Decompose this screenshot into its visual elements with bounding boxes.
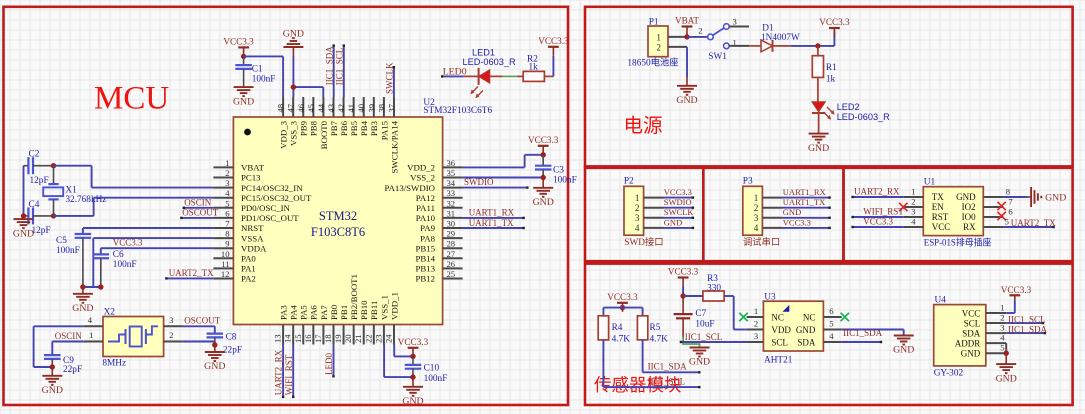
svg-text:43: 43 xyxy=(326,104,336,113)
pin 28 PB15 (right) xyxy=(415,239,462,254)
svg-text:OSCOUT: OSCOUT xyxy=(184,316,221,326)
svg-text:SWD接口: SWD接口 xyxy=(624,236,663,248)
capacitor C9 xyxy=(44,342,82,376)
pin 7 NRST (left) xyxy=(213,219,264,234)
svg-text:GY-302: GY-302 xyxy=(934,369,964,379)
svg-text:11: 11 xyxy=(221,259,229,269)
svg-text:44: 44 xyxy=(316,103,326,112)
wire VSS_1 to ground xyxy=(384,345,413,378)
svg-text:18: 18 xyxy=(323,334,333,343)
svg-text:VCC3.3: VCC3.3 xyxy=(783,217,811,227)
svg-text:21: 21 xyxy=(353,334,363,343)
svg-text:4: 4 xyxy=(88,315,93,325)
svg-text:UART1_TX: UART1_TX xyxy=(469,218,514,228)
pin 18 PB0 (bottom) xyxy=(323,304,339,344)
svg-text:OSCIN: OSCIN xyxy=(184,197,212,207)
junction X1 bottom xyxy=(51,213,56,218)
svg-text:LED0: LED0 xyxy=(324,353,334,375)
power VCC3.3 in power section xyxy=(819,17,850,37)
power VBAT symbol xyxy=(675,16,699,36)
svg-text:2: 2 xyxy=(169,330,173,340)
wire junction to R3 xyxy=(683,295,703,297)
wire X1 bottom to pin 4 xyxy=(54,198,214,216)
svg-text:BOOT0: BOOT0 xyxy=(319,120,329,149)
net label SWCLK (pin 37 wire) xyxy=(385,62,396,97)
svg-text:IIC1_SDA: IIC1_SDA xyxy=(843,328,883,338)
wire VSS_3 / BOOT0 ground tie xyxy=(293,56,323,97)
connector P3 body xyxy=(743,177,780,248)
svg-text:PA0: PA0 xyxy=(241,254,256,264)
pin 10 PA0 (left) xyxy=(213,249,256,264)
svg-text:R4: R4 xyxy=(612,323,623,333)
svg-text:PA9: PA9 xyxy=(420,223,435,233)
ground below LED2 xyxy=(808,134,829,154)
capacitor C8 xyxy=(207,326,242,355)
svg-text:R1: R1 xyxy=(826,63,837,73)
pin 24 VDD_1 (bottom) xyxy=(383,292,399,344)
resistor R3 xyxy=(703,274,724,301)
svg-text:VCC3.3: VCC3.3 xyxy=(863,216,893,226)
pin 4 PC15/OSC32_OUT (left) xyxy=(213,188,312,203)
sensor U3 AHT21 body xyxy=(763,293,823,366)
svg-text:X2: X2 xyxy=(104,307,116,317)
pin 2 of P2 with net SWDIO xyxy=(644,197,695,209)
svg-text:VDD_1: VDD_1 xyxy=(389,292,399,320)
svg-text:1: 1 xyxy=(225,158,229,168)
svg-text:PB1: PB1 xyxy=(339,305,349,320)
svg-text:3: 3 xyxy=(225,178,229,188)
pin 6 of U3 (no connect) xyxy=(823,306,849,321)
svg-text:1: 1 xyxy=(911,186,915,196)
junction C10 bottom xyxy=(410,374,415,379)
svg-text:SWCLK/PA14: SWCLK/PA14 xyxy=(389,120,399,173)
svg-text:10: 10 xyxy=(221,249,230,259)
svg-text:NC: NC xyxy=(803,312,816,322)
svg-text:C5: C5 xyxy=(56,236,67,246)
svg-text:PD1/OSC_OUT: PD1/OSC_OUT xyxy=(241,213,299,223)
svg-text:25: 25 xyxy=(447,269,456,279)
pin 5 PD0/OSC_IN (left) xyxy=(213,198,290,213)
pin 4 of P3 with net VCC3.3 xyxy=(762,217,830,229)
junction R1 top xyxy=(815,43,820,48)
svg-text:PB5: PB5 xyxy=(349,120,359,136)
svg-text:PA1: PA1 xyxy=(241,264,256,274)
svg-text:1N4007W: 1N4007W xyxy=(761,33,800,43)
svg-text:TX: TX xyxy=(932,192,944,202)
svg-text:100nF: 100nF xyxy=(553,176,577,186)
power VCC3.3 above R2 xyxy=(538,36,569,56)
svg-text:22pF: 22pF xyxy=(223,346,242,356)
junction C9 bottom xyxy=(50,364,55,369)
svg-text:45: 45 xyxy=(306,104,316,113)
svg-text:28: 28 xyxy=(447,239,456,249)
svg-text:3: 3 xyxy=(169,315,173,325)
pin 11 PA1 (left) xyxy=(213,259,255,274)
pin 4 of P2 with net GND xyxy=(644,217,695,229)
pin 32 PA11 (right) xyxy=(416,198,463,213)
svg-text:D1: D1 xyxy=(762,24,774,34)
svg-text:UART2_TX: UART2_TX xyxy=(1011,218,1056,228)
svg-text:VCC3.3: VCC3.3 xyxy=(538,36,569,46)
junction analog gnd left xyxy=(80,284,85,289)
svg-text:18650电池座: 18650电池座 xyxy=(627,57,678,69)
svg-text:AHT21: AHT21 xyxy=(764,355,793,365)
svg-text:调试串口: 调试串口 xyxy=(743,236,780,248)
svg-text:9: 9 xyxy=(225,239,229,249)
svg-text:VCC3.3: VCC3.3 xyxy=(398,337,429,347)
net label IIC1_SCL at U4 pin2 xyxy=(1006,315,1045,325)
pin 6 PD1/OSC_OUT (left) xyxy=(213,208,299,223)
svg-text:VCC: VCC xyxy=(932,222,951,232)
pin 33 PA12 (right) xyxy=(416,188,463,203)
pin 2 of P3 with net UART1_TX xyxy=(762,197,830,209)
resistor R2 xyxy=(517,55,553,82)
svg-text:GND: GND xyxy=(961,349,981,359)
pin 4 of U3 net IIC1_SDA xyxy=(823,328,882,343)
svg-text:17: 17 xyxy=(313,334,323,343)
svg-text:1: 1 xyxy=(656,32,661,42)
wire VSS_2 to ground xyxy=(463,177,544,179)
svg-text:VDD_2: VDD_2 xyxy=(407,163,435,173)
svg-text:33: 33 xyxy=(447,188,456,198)
wire NRST to C5 xyxy=(83,228,214,234)
svg-text:PA8: PA8 xyxy=(420,233,435,243)
svg-text:2: 2 xyxy=(656,43,661,53)
ground below C3 xyxy=(533,178,554,209)
wire U4 ADDR to GND xyxy=(1005,343,1007,353)
resistor R1 xyxy=(812,46,837,102)
svg-text:32.768kHz: 32.768kHz xyxy=(65,195,106,205)
svg-text:C8: C8 xyxy=(226,333,237,343)
pin 35 VSS_2 (right) xyxy=(410,168,463,183)
svg-text:IIC1_SCL: IIC1_SCL xyxy=(334,48,344,86)
svg-text:GND: GND xyxy=(283,29,304,40)
pin 48 VDD_3 (top) xyxy=(276,97,289,149)
section border MCU xyxy=(4,7,569,405)
capacitor C1 xyxy=(235,56,275,87)
net label IIC1_SCL (pin 42 wire) xyxy=(334,44,345,97)
svg-text:C4: C4 xyxy=(29,200,40,210)
wire VCC3.3 to pin 48 xyxy=(244,56,284,97)
svg-text:P2: P2 xyxy=(624,177,634,187)
pin 3 of U1 net WIFI_RST xyxy=(851,206,923,218)
svg-text:VBAT: VBAT xyxy=(675,16,699,26)
svg-text:U1: U1 xyxy=(924,177,936,187)
svg-text:6: 6 xyxy=(1008,206,1013,216)
svg-text:5: 5 xyxy=(1005,216,1009,226)
svg-text:100nF: 100nF xyxy=(424,374,448,384)
ground below C8 xyxy=(204,345,225,372)
svg-text:U4: U4 xyxy=(935,295,947,305)
svg-text:100nF: 100nF xyxy=(252,75,276,85)
svg-text:GND: GND xyxy=(1045,193,1066,204)
pin 7 of U1 (no connect) xyxy=(983,196,1013,210)
ground right of U1 (sideways) xyxy=(1028,187,1067,207)
pin 2 of U4 xyxy=(986,312,1006,323)
svg-text:GND: GND xyxy=(72,303,93,314)
svg-text:2: 2 xyxy=(754,319,758,329)
pin 5 of U3 GND xyxy=(823,319,903,336)
svg-text:5: 5 xyxy=(1000,343,1004,353)
svg-text:24: 24 xyxy=(383,334,393,343)
svg-text:5: 5 xyxy=(225,198,229,208)
svg-text:PB7: PB7 xyxy=(329,120,339,136)
net label UART2_RX on pin 13 xyxy=(274,345,285,399)
svg-text:UART1_TX: UART1_TX xyxy=(783,197,825,207)
svg-text:IIC1_SCL: IIC1_SCL xyxy=(648,376,686,386)
svg-text:MCU: MCU xyxy=(94,81,169,117)
svg-text:2: 2 xyxy=(754,203,759,213)
ground below U4 xyxy=(996,353,1017,384)
pin 3 PC14/OSC32_IN (left) xyxy=(213,178,303,193)
connector P2 body xyxy=(624,177,664,248)
net label OSCIN at X2 pin 1 xyxy=(52,331,83,342)
svg-text:5: 5 xyxy=(829,319,833,329)
svg-text:GND: GND xyxy=(956,192,976,202)
svg-text:6: 6 xyxy=(829,306,834,316)
svg-text:SCL: SCL xyxy=(964,318,981,328)
net label OSCOUT at X2 pin 3 xyxy=(183,316,221,327)
svg-text:14: 14 xyxy=(283,334,293,343)
svg-text:6: 6 xyxy=(225,208,230,218)
svg-text:19: 19 xyxy=(333,334,343,343)
svg-text:C1: C1 xyxy=(252,65,263,75)
pin 3 of U4 xyxy=(986,323,1006,334)
pin 9 VDDA (left) xyxy=(213,239,267,254)
svg-text:RST: RST xyxy=(932,212,949,222)
svg-text:VCC: VCC xyxy=(962,308,981,318)
svg-text:IO0: IO0 xyxy=(962,212,976,222)
svg-text:VCC3.3: VCC3.3 xyxy=(819,17,850,27)
svg-text:3: 3 xyxy=(635,213,640,223)
junction C10 top xyxy=(410,354,415,359)
pin 1 of P2 with net VCC3.3 xyxy=(644,187,695,199)
svg-text:C7: C7 xyxy=(695,309,706,319)
net label UART1_TX on pin 30 xyxy=(463,218,525,229)
pin 40 PB4 (top) xyxy=(356,97,369,136)
pin 20 PB2/BOOT1 (bottom) xyxy=(343,274,359,344)
switch SW1 xyxy=(708,16,749,62)
ground below U3 pin 5 xyxy=(893,336,914,356)
svg-text:VDD_3: VDD_3 xyxy=(279,120,289,148)
svg-text:16: 16 xyxy=(303,334,313,343)
svg-text:1k: 1k xyxy=(529,63,539,73)
svg-text:GND: GND xyxy=(783,207,801,217)
pin 8 VSSA (left) xyxy=(213,229,264,244)
svg-text:30: 30 xyxy=(447,219,456,229)
ground below C5/C6 xyxy=(72,287,93,314)
wire analog ground bus xyxy=(83,286,101,288)
net label IIC1_SCL lower xyxy=(648,376,686,386)
svg-text:34: 34 xyxy=(447,178,456,188)
pin 1 of U4 xyxy=(986,302,1006,313)
svg-text:8: 8 xyxy=(1006,186,1010,196)
pin 1 of X2 xyxy=(84,330,103,341)
pin 1 of P3 with net UART1_RX xyxy=(762,187,830,199)
section border ESP xyxy=(844,168,1073,261)
pin 38 PA15 (top) xyxy=(376,97,389,140)
section border debug-uart xyxy=(703,168,843,261)
ground above VSS_3 (inverted) xyxy=(283,29,304,57)
svg-text:LED0: LED0 xyxy=(443,66,467,77)
svg-text:2: 2 xyxy=(635,203,640,213)
svg-text:RX: RX xyxy=(963,222,976,232)
pin 2 of X2 xyxy=(164,330,183,341)
svg-text:2: 2 xyxy=(698,26,702,36)
svg-text:1: 1 xyxy=(635,193,640,203)
svg-text:VCC3.3: VCC3.3 xyxy=(668,267,699,277)
section border power xyxy=(585,7,1073,167)
svg-text:P1: P1 xyxy=(649,17,659,27)
pin 34 PA13/SWDIO (right) xyxy=(384,178,462,193)
svg-text:SWDIO: SWDIO xyxy=(664,197,692,207)
svg-text:UART2_RX: UART2_RX xyxy=(854,186,900,196)
net label IIC1_SDA lower xyxy=(648,362,688,372)
net label SWDIO on pin 34 xyxy=(463,177,529,189)
pin 36 VDD_2 (right) xyxy=(407,158,462,173)
connector P1 body xyxy=(627,17,678,68)
svg-text:PA4: PA4 xyxy=(289,305,299,320)
pin 4 of U1 net VCC3.3 xyxy=(851,216,923,228)
svg-text:VSS_2: VSS_2 xyxy=(410,173,435,183)
svg-text:330: 330 xyxy=(707,283,721,293)
svg-text:PB13: PB13 xyxy=(415,264,435,274)
svg-text:OSCIN: OSCIN xyxy=(55,331,83,341)
wire R5 to IIC1_SDA xyxy=(643,340,701,374)
svg-text:12pF: 12pF xyxy=(30,176,49,186)
svg-text:SWCLK: SWCLK xyxy=(664,207,695,217)
pin 5 of U1 net UART2_TX xyxy=(983,216,1056,228)
svg-text:100nF: 100nF xyxy=(113,260,137,270)
svg-text:1: 1 xyxy=(754,193,759,203)
svg-text:13: 13 xyxy=(273,334,283,343)
svg-text:PA7: PA7 xyxy=(319,305,329,320)
pin 26 PB13 (right) xyxy=(415,259,462,274)
svg-text:NRST: NRST xyxy=(241,223,264,233)
svg-text:PB4: PB4 xyxy=(359,120,369,136)
svg-text:38: 38 xyxy=(376,104,386,113)
pin 1 of P1 xyxy=(668,36,687,38)
svg-text:PA12: PA12 xyxy=(416,193,435,203)
svg-text:U3: U3 xyxy=(764,293,776,303)
svg-text:C3: C3 xyxy=(553,166,564,176)
capacitor C5 xyxy=(56,234,91,287)
pin 14 PA4 (bottom) xyxy=(283,305,299,345)
svg-text:4.7K: 4.7K xyxy=(650,334,669,344)
net label IIC1_SDA at U4 pin3 xyxy=(1006,325,1047,335)
svg-text:IIC1_SDA: IIC1_SDA xyxy=(1008,325,1048,335)
net label IIC1_SDA (pin 43 wire) xyxy=(324,44,335,97)
junction C3 bottom xyxy=(541,175,546,180)
svg-text:PD0/OSC_IN: PD0/OSC_IN xyxy=(241,203,291,213)
power VCC3.3 above R4/R5 xyxy=(607,292,638,312)
pin 2 of U1 (no connect) xyxy=(899,196,923,211)
pin 4 of U4 xyxy=(986,333,1006,344)
svg-text:40: 40 xyxy=(356,104,366,113)
svg-text:SDA: SDA xyxy=(797,337,816,347)
svg-text:SDA: SDA xyxy=(962,328,981,338)
pin 31 PA10 (right) xyxy=(416,208,463,223)
svg-text:7: 7 xyxy=(225,219,230,229)
svg-text:PA10: PA10 xyxy=(416,213,436,223)
svg-text:PC13: PC13 xyxy=(241,173,261,183)
section border SWD xyxy=(585,168,703,261)
svg-text:8MHz: 8MHz xyxy=(102,359,126,369)
svg-text:P3: P3 xyxy=(743,177,753,187)
svg-text:GND: GND xyxy=(808,143,829,154)
svg-text:F103C8T6: F103C8T6 xyxy=(311,225,365,239)
ground below C9 xyxy=(42,367,63,396)
svg-text:12: 12 xyxy=(221,269,230,279)
svg-text:39: 39 xyxy=(366,104,376,113)
pin 19 PB1 (bottom) xyxy=(333,305,349,345)
pin 29 PA8 (right) xyxy=(420,229,462,244)
svg-text:PB0: PB0 xyxy=(329,304,339,320)
svg-text:NC: NC xyxy=(771,312,784,322)
pin 16 PA6 (bottom) xyxy=(303,305,319,345)
svg-text:C2: C2 xyxy=(29,149,40,159)
capacitor C4 xyxy=(24,200,54,236)
svg-text:GND: GND xyxy=(42,385,63,396)
svg-text:VSS_1: VSS_1 xyxy=(379,295,389,320)
svg-text:C10: C10 xyxy=(424,364,440,374)
net label WIFI_RST on pin 14 xyxy=(284,345,295,399)
svg-text:X1: X1 xyxy=(65,185,77,195)
svg-text:PB6: PB6 xyxy=(339,120,349,136)
pin 17 PA7 (bottom) xyxy=(313,305,329,345)
pin 1 of U1 net UART2_RX xyxy=(851,186,923,198)
svg-text:32: 32 xyxy=(447,198,456,208)
net label UART1_RX on pin 31 xyxy=(463,208,525,220)
pin 3 of U3 net IIC1_SCL xyxy=(680,331,764,343)
svg-text:31: 31 xyxy=(447,208,456,218)
ground below P1 xyxy=(676,77,697,106)
svg-text:IIC1_SDA: IIC1_SDA xyxy=(324,46,334,86)
svg-text:VCC3.3: VCC3.3 xyxy=(664,187,692,197)
svg-text:PB8: PB8 xyxy=(309,120,319,136)
junction C3 top xyxy=(541,152,546,157)
pin 27 PB14 (right) xyxy=(415,249,462,264)
wire VCC3.3 to R4 and R5 xyxy=(603,308,642,316)
svg-text:PB2/BOOT1: PB2/BOOT1 xyxy=(349,274,359,320)
junction R4/R5 top xyxy=(620,305,625,310)
net label LED0 on pin 18 xyxy=(324,345,335,378)
svg-text:PB9: PB9 xyxy=(299,120,309,136)
pin 15 PA5 (bottom) xyxy=(293,305,309,345)
svg-text:VDD: VDD xyxy=(771,325,791,335)
pin 41 PB5 (top) xyxy=(346,97,359,136)
svg-text:PA11: PA11 xyxy=(416,203,435,213)
pin 43 PB7 (top) xyxy=(326,97,339,136)
pin 12 PA2 (left) xyxy=(213,269,255,284)
crystal X1 xyxy=(43,166,106,216)
svg-text:LED-0603_R: LED-0603_R xyxy=(837,112,890,122)
junction analog gnd right xyxy=(98,284,103,289)
power VCC3.3 above C7 xyxy=(668,267,699,287)
svg-text:37: 37 xyxy=(386,103,396,112)
svg-text:WIFI_RST: WIFI_RST xyxy=(284,354,294,395)
net label LED0 and wire xyxy=(441,66,467,77)
wire pin4 X2 to ground xyxy=(34,326,84,367)
pin 2 PC13 (left) xyxy=(213,168,261,183)
svg-text:3: 3 xyxy=(911,206,915,216)
svg-text:100nF: 100nF xyxy=(56,246,80,256)
svg-text:PB3: PB3 xyxy=(369,120,379,136)
capacitor C6 xyxy=(93,250,137,287)
diode D1 xyxy=(749,24,800,52)
svg-text:1: 1 xyxy=(1000,302,1004,312)
junction at pin 47 xyxy=(291,84,296,89)
